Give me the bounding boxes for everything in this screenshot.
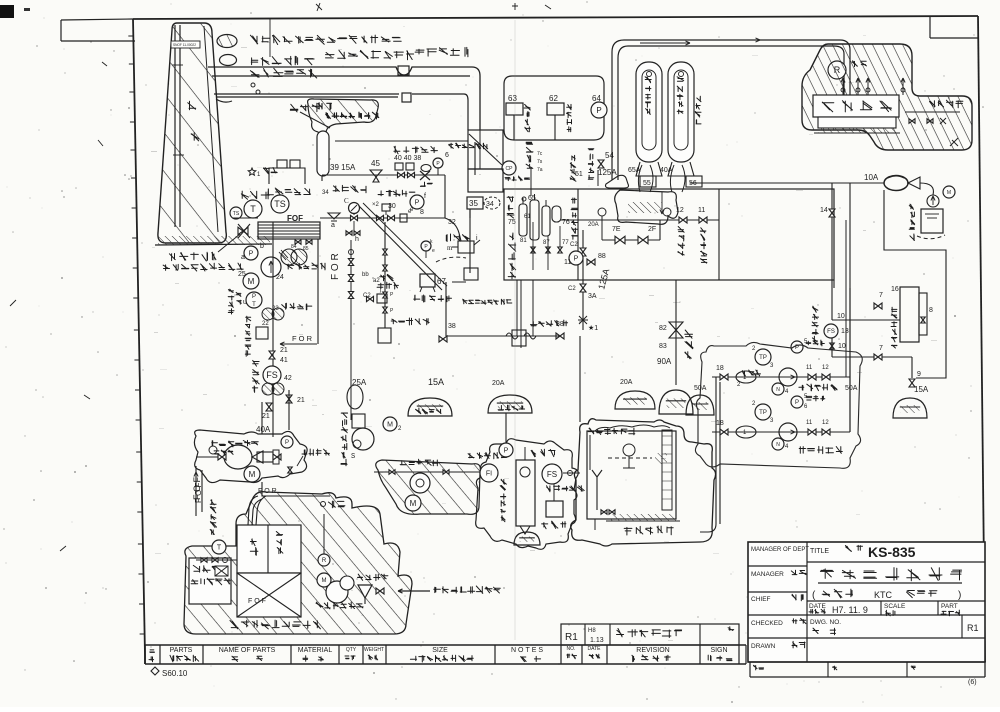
svg-text:50A: 50A bbox=[845, 385, 858, 392]
svg-text:REVISION: REVISION bbox=[636, 647, 669, 654]
svg-text:11: 11 bbox=[806, 365, 813, 371]
svg-text:88: 88 bbox=[598, 253, 606, 260]
svg-text:SIGN: SIGN bbox=[710, 647, 727, 654]
svg-text:DATE: DATE bbox=[588, 646, 602, 652]
svg-text:F O R: F O R bbox=[330, 253, 341, 280]
svg-text:FS: FS bbox=[827, 329, 835, 335]
svg-text:SCALE: SCALE bbox=[884, 603, 906, 610]
svg-text:21: 21 bbox=[262, 413, 270, 420]
svg-text:21: 21 bbox=[297, 397, 305, 404]
svg-text:41: 41 bbox=[280, 357, 288, 364]
svg-text:TS: TS bbox=[274, 199, 286, 209]
svg-text:42: 42 bbox=[284, 375, 292, 382]
svg-text:40 40 38: 40 40 38 bbox=[394, 155, 421, 162]
svg-text:P: P bbox=[249, 251, 254, 258]
svg-text:S60.10: S60.10 bbox=[162, 669, 188, 678]
svg-text:u: u bbox=[243, 299, 247, 306]
svg-text:M: M bbox=[387, 422, 393, 429]
svg-text:F O F: F O F bbox=[248, 598, 266, 605]
svg-text:11: 11 bbox=[698, 207, 705, 214]
svg-text:55: 55 bbox=[643, 180, 651, 187]
svg-text:90A: 90A bbox=[657, 357, 672, 366]
svg-text:11: 11 bbox=[564, 259, 571, 266]
svg-text:C2: C2 bbox=[570, 242, 578, 248]
svg-text:FS: FS bbox=[547, 470, 557, 479]
svg-text:R: R bbox=[322, 558, 327, 564]
svg-text:21: 21 bbox=[280, 347, 288, 354]
svg-text:): ) bbox=[958, 590, 961, 601]
svg-text:7a: 7a bbox=[537, 167, 543, 173]
svg-text:40A: 40A bbox=[256, 425, 271, 434]
svg-text:NAME OF PARTS: NAME OF PARTS bbox=[219, 647, 276, 654]
svg-text:T: T bbox=[252, 302, 256, 308]
svg-text:P: P bbox=[504, 448, 509, 455]
svg-text:N: N bbox=[776, 442, 780, 448]
svg-text:15A: 15A bbox=[914, 385, 929, 394]
svg-text:FS: FS bbox=[266, 370, 278, 380]
svg-text:7: 7 bbox=[879, 345, 883, 352]
svg-text:38: 38 bbox=[448, 323, 456, 330]
svg-text:NOTES: NOTES bbox=[511, 647, 545, 654]
svg-text:1.13: 1.13 bbox=[590, 637, 604, 644]
svg-text:S: S bbox=[351, 453, 355, 461]
svg-text:16: 16 bbox=[891, 286, 899, 293]
svg-text:C2: C2 bbox=[568, 286, 576, 292]
svg-text:11: 11 bbox=[806, 420, 813, 426]
svg-text:DRAWN: DRAWN bbox=[751, 643, 776, 650]
svg-text:DWG. NO.: DWG. NO. bbox=[810, 619, 841, 626]
svg-text:25A: 25A bbox=[352, 378, 367, 387]
svg-text:7E: 7E bbox=[612, 226, 621, 233]
svg-text:F O F: F O F bbox=[194, 482, 203, 503]
svg-text:QTY: QTY bbox=[346, 647, 357, 653]
svg-text:83: 83 bbox=[659, 343, 667, 350]
svg-text:R1: R1 bbox=[967, 623, 979, 633]
svg-text:65: 65 bbox=[528, 195, 536, 202]
svg-text:38: 38 bbox=[556, 321, 564, 328]
svg-text:8: 8 bbox=[929, 307, 933, 314]
svg-text:H7. 11. 9: H7. 11. 9 bbox=[832, 605, 868, 615]
svg-text:10: 10 bbox=[838, 343, 846, 350]
svg-text:×2: ×2 bbox=[372, 202, 380, 208]
svg-text:MATERIAL: MATERIAL bbox=[298, 647, 333, 654]
svg-text:3A: 3A bbox=[588, 293, 597, 300]
svg-text:bb: bb bbox=[362, 272, 369, 278]
svg-text:SNOF 11-00022: SNOF 11-00022 bbox=[173, 43, 196, 47]
svg-text:FI: FI bbox=[486, 471, 492, 478]
svg-text:39 15A: 39 15A bbox=[330, 163, 356, 172]
svg-text:87: 87 bbox=[543, 240, 550, 246]
svg-text:H8: H8 bbox=[588, 628, 596, 634]
svg-text:35: 35 bbox=[469, 199, 478, 208]
svg-text:a2: a2 bbox=[373, 278, 380, 284]
svg-text:14: 14 bbox=[820, 207, 828, 214]
svg-text:P: P bbox=[795, 400, 799, 406]
svg-text:10A: 10A bbox=[864, 173, 879, 182]
svg-text:6: 6 bbox=[445, 152, 449, 159]
svg-text:20A: 20A bbox=[620, 379, 633, 386]
svg-text:7c: 7c bbox=[537, 151, 543, 157]
svg-text:M: M bbox=[248, 277, 255, 286]
svg-text:62: 62 bbox=[549, 94, 558, 103]
svg-text:P: P bbox=[252, 294, 256, 300]
svg-text:SIZE: SIZE bbox=[432, 647, 448, 654]
svg-text:P: P bbox=[285, 440, 289, 446]
svg-text:M: M bbox=[249, 470, 256, 479]
svg-text:CHIEF: CHIEF bbox=[751, 596, 771, 603]
svg-text:2F: 2F bbox=[648, 226, 656, 233]
svg-text:7s: 7s bbox=[537, 159, 543, 165]
svg-text:TP: TP bbox=[759, 410, 767, 416]
svg-text:8: 8 bbox=[420, 209, 424, 216]
svg-text:10: 10 bbox=[837, 313, 845, 320]
svg-text:24: 24 bbox=[276, 274, 284, 281]
svg-text:N: N bbox=[776, 387, 780, 393]
svg-text:12: 12 bbox=[676, 207, 684, 214]
svg-text:13: 13 bbox=[841, 328, 849, 335]
svg-text:67: 67 bbox=[437, 277, 446, 286]
svg-text:P: P bbox=[596, 106, 601, 115]
svg-text:63: 63 bbox=[508, 94, 517, 103]
svg-text:R1: R1 bbox=[565, 632, 578, 643]
svg-text:54: 54 bbox=[605, 151, 614, 160]
svg-text:15A: 15A bbox=[428, 377, 444, 387]
svg-text:KTC: KTC bbox=[874, 590, 893, 600]
svg-text:CHECKED: CHECKED bbox=[751, 620, 783, 627]
svg-text:a: a bbox=[331, 222, 335, 229]
svg-text:MANAGER OF DEPT: MANAGER OF DEPT bbox=[751, 547, 809, 553]
svg-text:T: T bbox=[217, 545, 222, 552]
svg-text:81: 81 bbox=[520, 238, 527, 244]
svg-text:22: 22 bbox=[262, 321, 269, 327]
svg-text:45: 45 bbox=[371, 159, 380, 168]
svg-text:m: m bbox=[447, 244, 453, 252]
svg-text:e: e bbox=[432, 248, 435, 254]
svg-text:(6): (6) bbox=[968, 679, 977, 686]
svg-text:12: 12 bbox=[822, 420, 829, 426]
svg-text:25: 25 bbox=[238, 271, 246, 278]
svg-text:9: 9 bbox=[917, 371, 921, 378]
svg-text:12: 12 bbox=[822, 365, 829, 371]
svg-text:M: M bbox=[322, 578, 327, 584]
svg-text:F O R: F O R bbox=[292, 334, 313, 343]
svg-text:M: M bbox=[947, 190, 951, 196]
svg-text:b: b bbox=[260, 243, 264, 250]
svg-text:f: f bbox=[424, 193, 426, 200]
svg-text:77: 77 bbox=[562, 240, 569, 246]
svg-text:18: 18 bbox=[716, 365, 724, 372]
svg-text:34: 34 bbox=[322, 190, 329, 196]
svg-text:32: 32 bbox=[448, 219, 456, 226]
svg-text:MANAGER: MANAGER bbox=[751, 571, 784, 578]
svg-text:82: 82 bbox=[659, 325, 667, 332]
svg-text:20A: 20A bbox=[492, 380, 505, 387]
svg-text:7: 7 bbox=[879, 292, 883, 299]
svg-text:TP: TP bbox=[759, 355, 767, 361]
svg-text:TS: TS bbox=[233, 211, 240, 217]
svg-text:a: a bbox=[241, 254, 245, 261]
svg-text:★1: ★1 bbox=[588, 324, 598, 332]
svg-text:M: M bbox=[410, 499, 417, 508]
svg-text:C2: C2 bbox=[363, 293, 371, 299]
svg-text:40A: 40A bbox=[660, 167, 673, 174]
svg-text:NO.: NO. bbox=[567, 646, 576, 652]
svg-text:20A: 20A bbox=[588, 222, 599, 228]
svg-text:125A: 125A bbox=[598, 168, 617, 177]
svg-text:PARTS: PARTS bbox=[170, 647, 193, 654]
svg-text:C: C bbox=[344, 197, 349, 205]
svg-text:P: P bbox=[574, 256, 579, 263]
svg-text:34: 34 bbox=[486, 201, 494, 208]
svg-text:WEIGHT: WEIGHT bbox=[364, 647, 384, 653]
svg-text:PART: PART bbox=[941, 603, 958, 610]
svg-text:h: h bbox=[355, 236, 359, 243]
svg-text:TITLE: TITLE bbox=[810, 548, 829, 555]
svg-text:61: 61 bbox=[524, 214, 531, 220]
svg-text:T: T bbox=[250, 204, 256, 214]
svg-text:P: P bbox=[415, 200, 420, 207]
svg-text:CP: CP bbox=[506, 166, 514, 172]
svg-text:KS-835: KS-835 bbox=[868, 544, 916, 560]
